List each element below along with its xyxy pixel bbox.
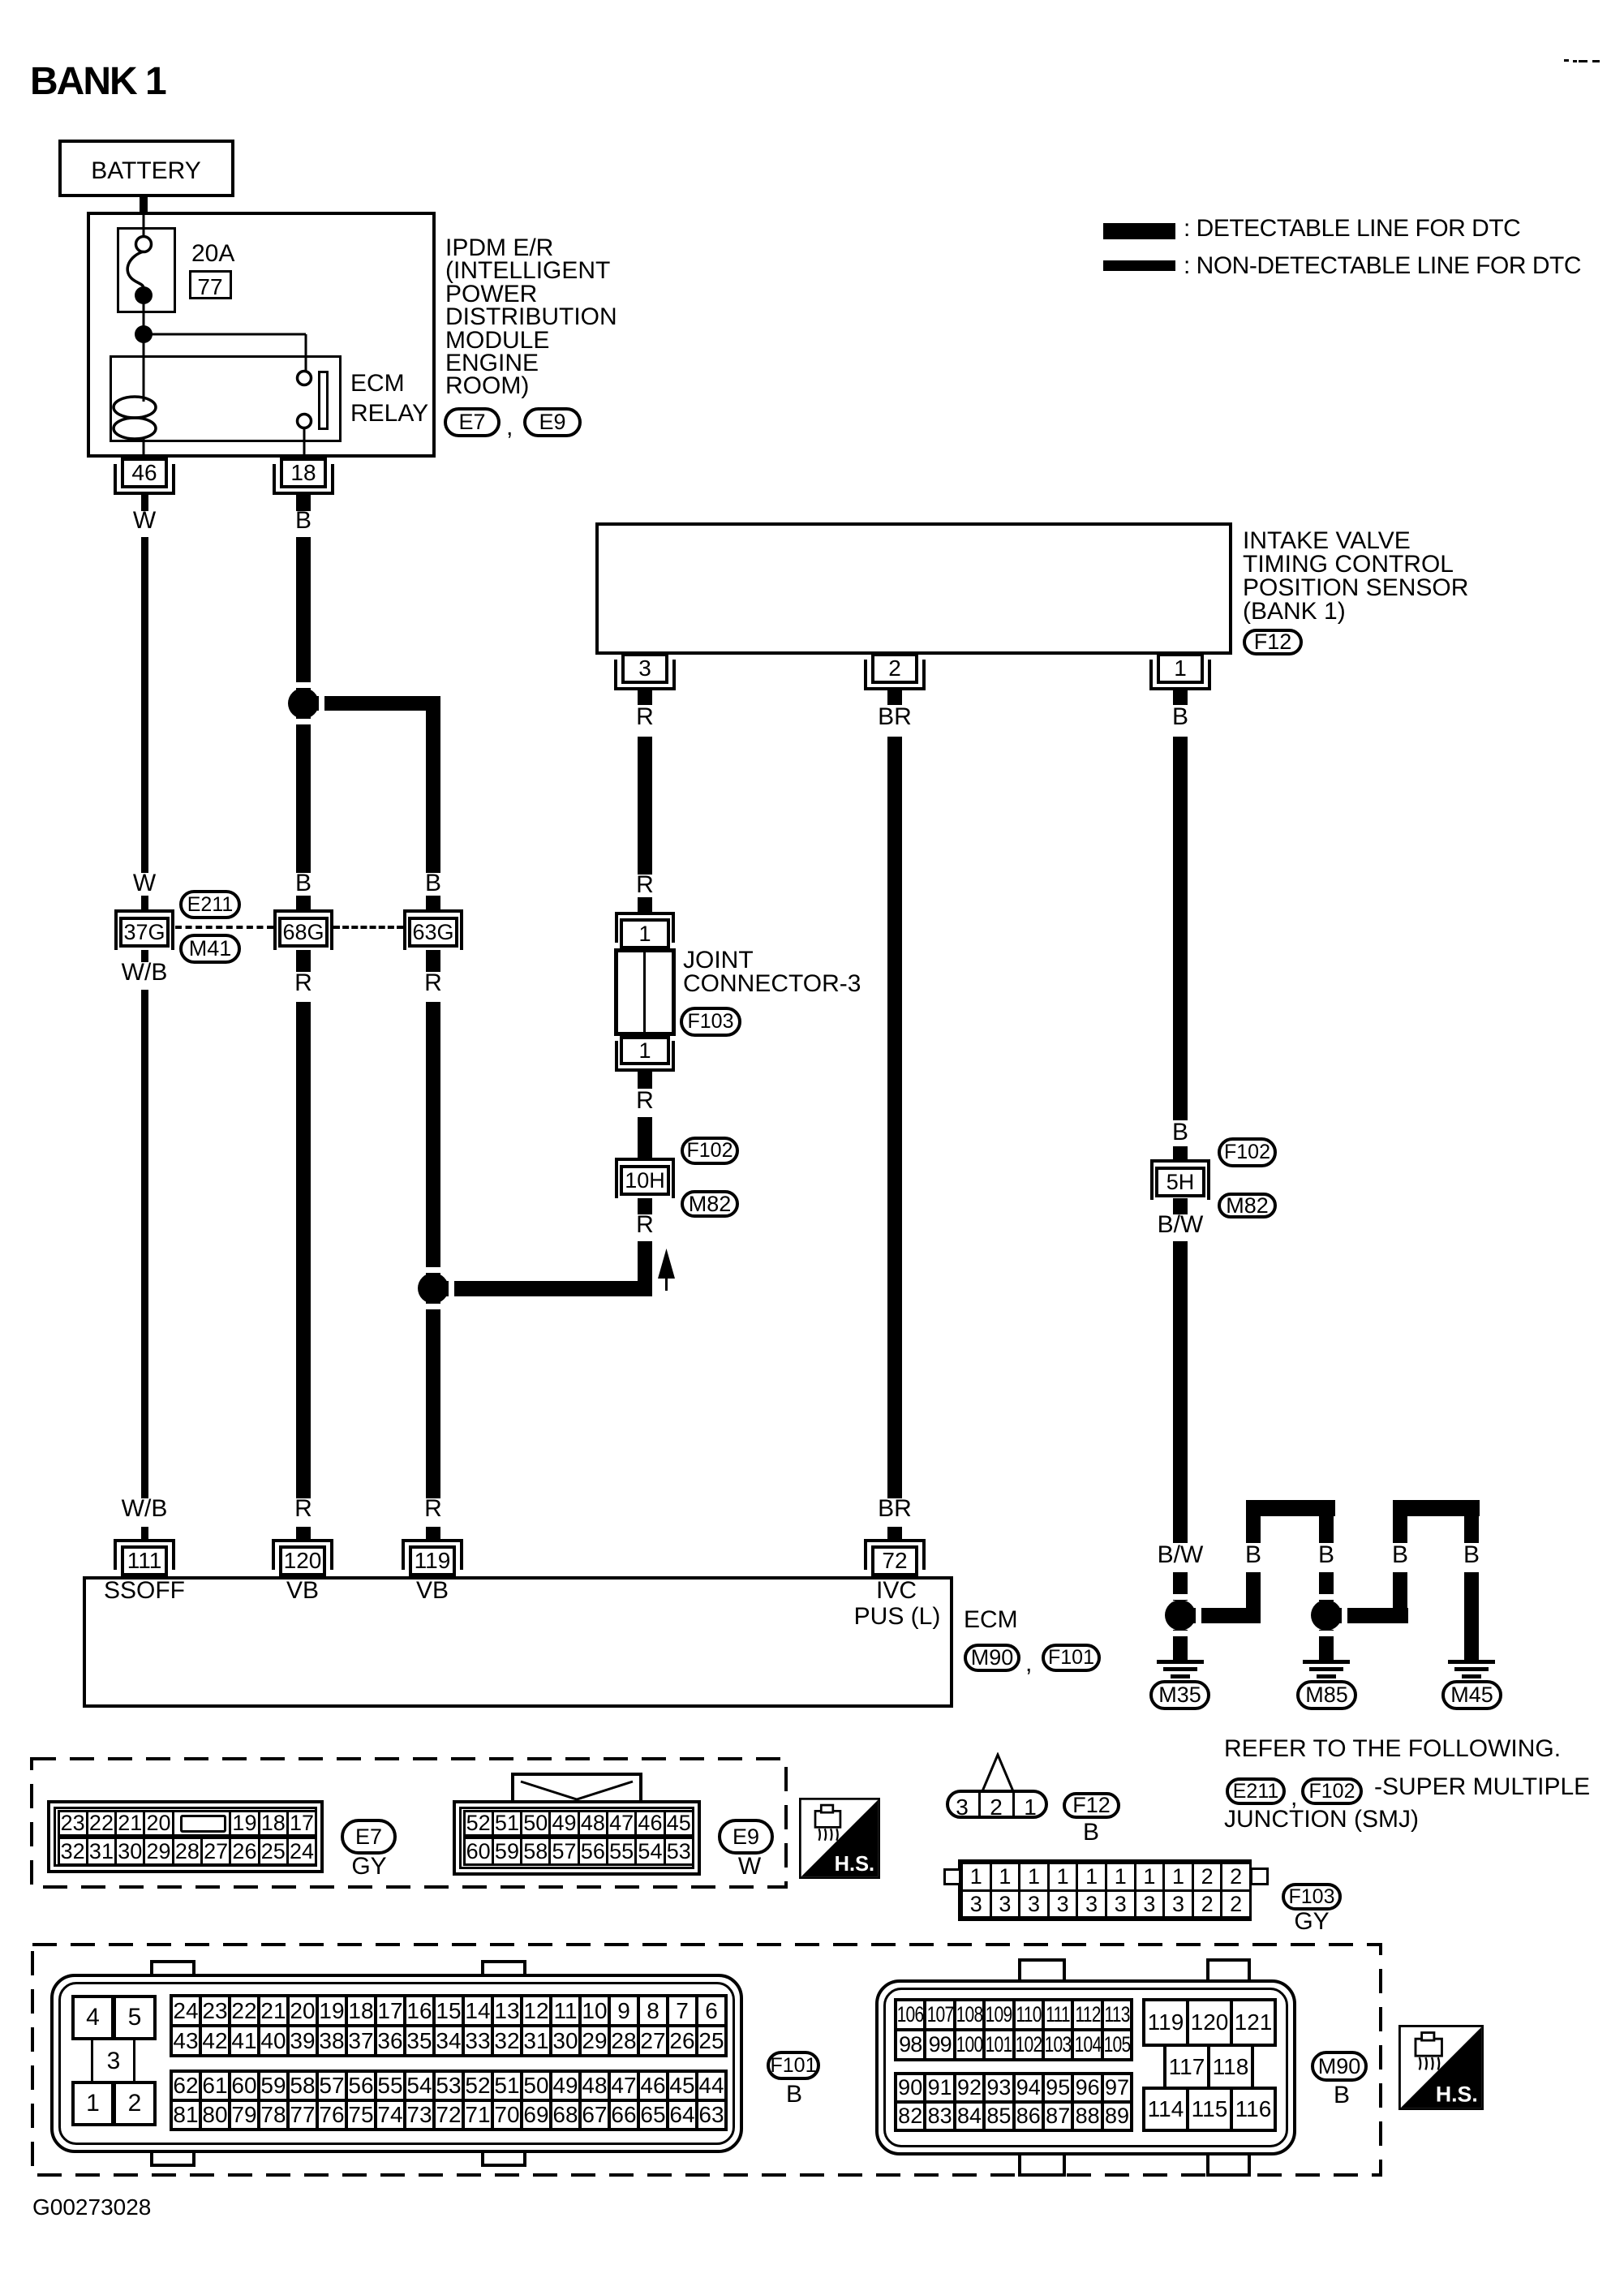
svg-text:H.S.: H.S. (1436, 2082, 1478, 2107)
svg-text:H.S.: H.S. (835, 1853, 874, 1876)
